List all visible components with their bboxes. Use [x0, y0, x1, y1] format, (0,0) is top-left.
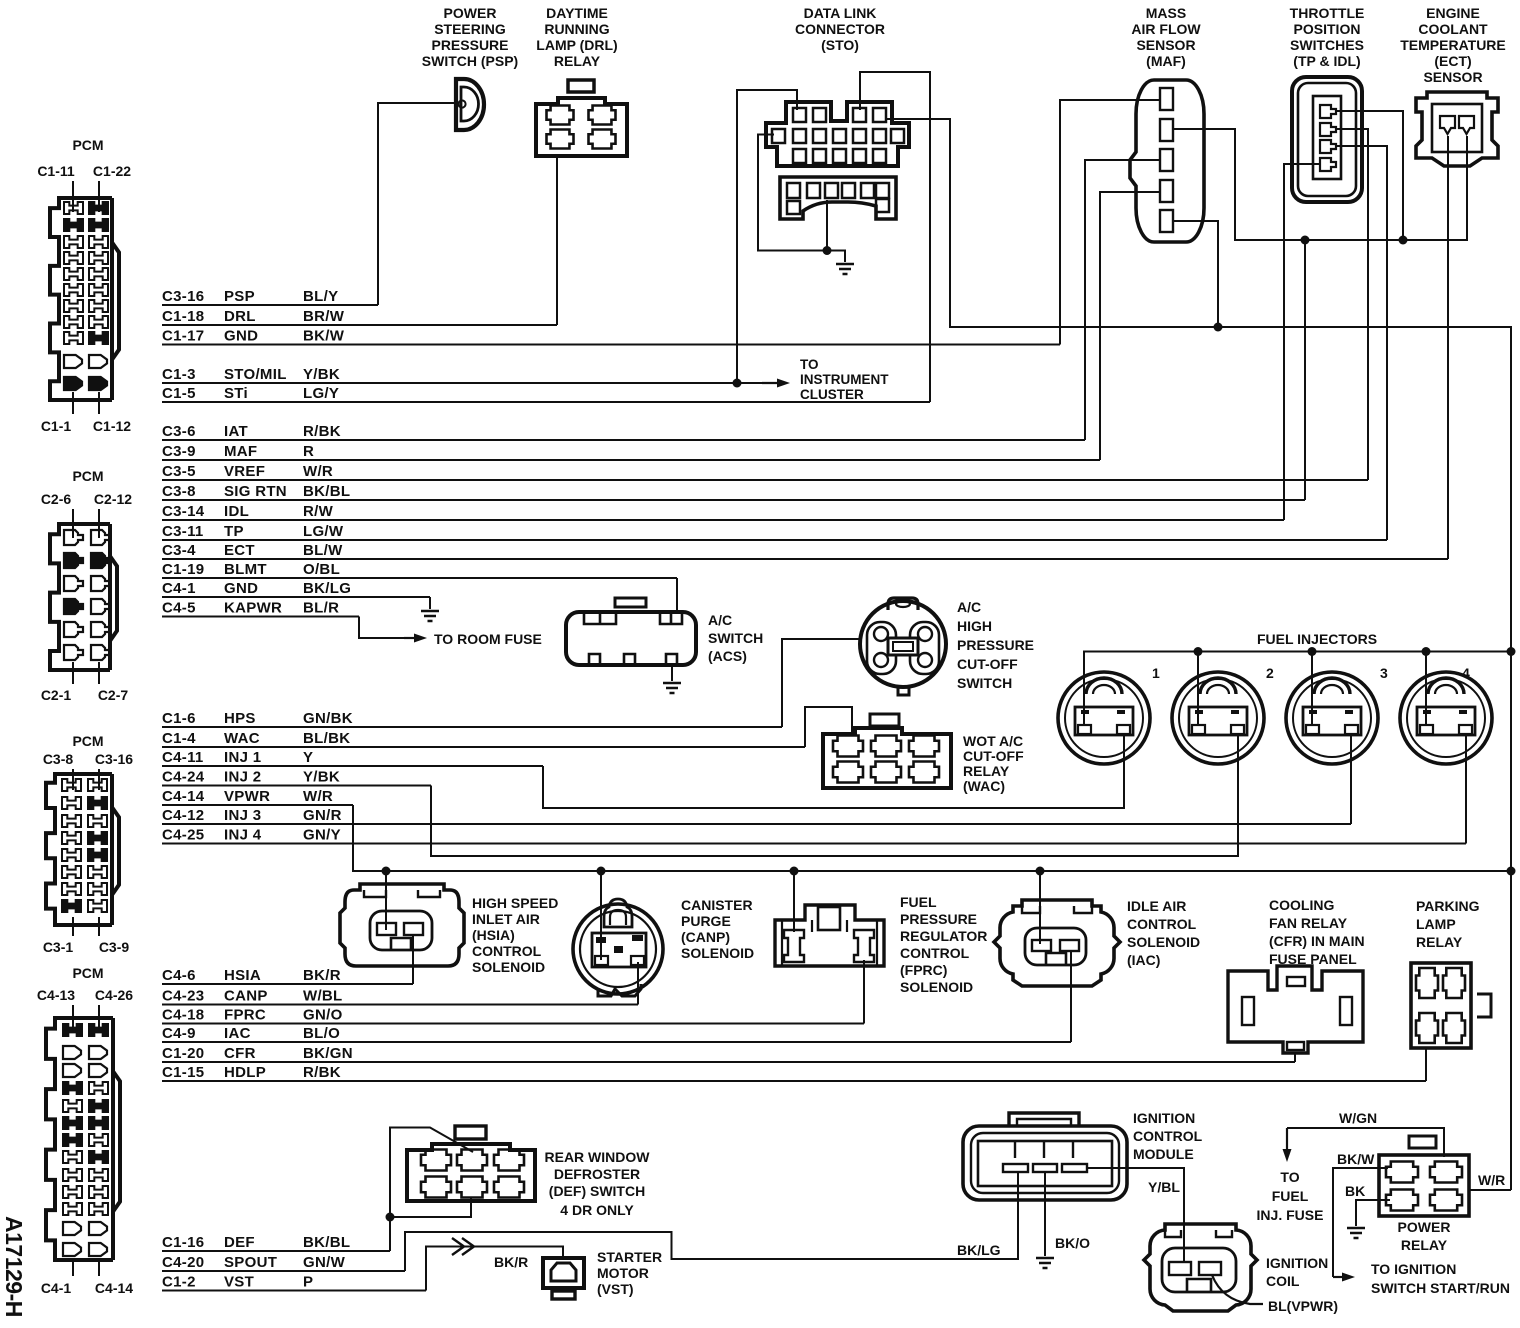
- wire INJ 4 row: [162, 843, 1466, 845]
- wire DEF riser: [390, 1128, 473, 1252]
- wire SIG RTN row: [162, 499, 1305, 501]
- svg-text:W/R: W/R: [303, 463, 333, 480]
- svg-text:FUSE PANEL: FUSE PANEL: [1269, 951, 1357, 967]
- wire GND row: [162, 344, 1060, 346]
- svg-text:STO/MIL: STO/MIL: [224, 366, 287, 383]
- svg-text:C3-8: C3-8: [43, 751, 74, 767]
- svg-text:C3-6: C3-6: [162, 423, 196, 440]
- svg-text:BK/BL: BK/BL: [303, 1234, 350, 1251]
- wire MAF pin 5 to right bus: [1173, 221, 1218, 327]
- svg-text:SWITCH: SWITCH: [708, 630, 763, 646]
- svg-text:IDLE AIR: IDLE AIR: [1127, 898, 1186, 914]
- wire ignition coil BL(VPWR) lead: [1212, 1275, 1263, 1304]
- wire VST row: [162, 1290, 426, 1292]
- svg-text:C1-16: C1-16: [162, 1234, 204, 1251]
- wire STO pin to VPWR right bus: [887, 119, 1511, 1190]
- svg-text:BL/BK: BL/BK: [303, 730, 350, 747]
- svg-text:LAMP: LAMP: [1416, 916, 1456, 932]
- wire STO/MIL arrow to instrument cluster: [762, 382, 780, 384]
- svg-text:C3-1: C3-1: [43, 939, 74, 955]
- svg-text:STEERING: STEERING: [434, 21, 506, 37]
- wire TP row to TP pin 3: [1337, 146, 1387, 540]
- svg-text:C3-11: C3-11: [162, 523, 204, 540]
- svg-text:FUEL INJECTORS: FUEL INJECTORS: [1257, 631, 1377, 647]
- svg-text:C3-8: C3-8: [162, 483, 196, 500]
- wire PSP BL/Y to PSP switch: [378, 103, 455, 305]
- svg-text:C1-4: C1-4: [162, 730, 196, 747]
- svg-text:C4-5: C4-5: [162, 600, 196, 617]
- svg-text:POWER: POWER: [1398, 1219, 1451, 1235]
- svg-text:(CANP): (CANP): [681, 929, 730, 945]
- wire FPRC feed: [793, 871, 795, 932]
- svg-text:C3-4: C3-4: [162, 542, 196, 559]
- svg-text:BK/R: BK/R: [303, 967, 341, 984]
- wire STi to data link connector: [860, 72, 930, 402]
- svg-text:BL/O: BL/O: [303, 1025, 340, 1042]
- wire VPWR row: [162, 804, 353, 806]
- svg-text:A17129-H: A17129-H: [1, 1216, 27, 1317]
- wire STO/MIL row: [162, 382, 762, 384]
- svg-text:(FPRC): (FPRC): [900, 962, 947, 978]
- wire SIG RTN bus MAF pin2 to ECT pin: [1173, 129, 1467, 240]
- wire injector 3 supply: [1311, 652, 1313, 727]
- svg-text:GND: GND: [224, 580, 258, 597]
- svg-text:C2-12: C2-12: [94, 491, 132, 507]
- wire CANP feed: [600, 871, 602, 960]
- svg-text:CUT-OFF: CUT-OFF: [963, 748, 1024, 764]
- svg-text:C1-18: C1-18: [162, 308, 204, 325]
- svg-text:GN/Y: GN/Y: [303, 827, 341, 844]
- svg-text:GN/W: GN/W: [303, 1254, 346, 1271]
- svg-text:WOT A/C: WOT A/C: [963, 733, 1023, 749]
- svg-text:PRESSURE: PRESSURE: [431, 37, 508, 53]
- svg-text:C4-20: C4-20: [162, 1254, 204, 1271]
- svg-text:PSP: PSP: [224, 288, 255, 305]
- fuel injector 1: [1058, 672, 1150, 764]
- wire IDL row: [162, 519, 1284, 521]
- connector PCM C1: [37, 137, 131, 434]
- svg-text:C4-9: C4-9: [162, 1025, 196, 1042]
- svg-text:RELAY: RELAY: [554, 53, 601, 69]
- svg-text:BL/W: BL/W: [303, 542, 343, 559]
- fuel injector 4: [1400, 672, 1492, 764]
- svg-text:(STO): (STO): [821, 37, 859, 53]
- svg-text:SIG RTN: SIG RTN: [224, 483, 287, 500]
- svg-text:C3-16: C3-16: [95, 751, 133, 767]
- solenoid FPRC (fuel pressure regulator control): [775, 905, 884, 966]
- wire HPS to A/C high pressure switch: [782, 639, 859, 727]
- svg-text:FUEL: FUEL: [1272, 1188, 1309, 1204]
- svg-text:AIR FLOW: AIR FLOW: [1131, 21, 1201, 37]
- svg-text:W/GN: W/GN: [1339, 1110, 1377, 1126]
- svg-text:BK/W: BK/W: [1337, 1151, 1375, 1167]
- svg-text:BK/R: BK/R: [494, 1254, 528, 1270]
- svg-text:TO ROOM FUSE: TO ROOM FUSE: [434, 631, 542, 647]
- svg-text:CUT-OFF: CUT-OFF: [957, 656, 1018, 672]
- switch A/C high pressure cut-off: [860, 598, 946, 695]
- coil ignition coil connector: [1144, 1224, 1257, 1311]
- svg-text:INJ. FUSE: INJ. FUSE: [1257, 1207, 1324, 1223]
- svg-text:C1-20: C1-20: [162, 1045, 204, 1062]
- svg-text:PRESSURE: PRESSURE: [957, 637, 1034, 653]
- wire CFR row to cooling fan relay: [1294, 1052, 1296, 1062]
- svg-text:STARTER: STARTER: [597, 1249, 662, 1265]
- svg-text:CONTROL: CONTROL: [900, 945, 970, 961]
- svg-text:C4-1: C4-1: [41, 1280, 72, 1296]
- svg-text:INJ 3: INJ 3: [224, 807, 261, 824]
- wire SPOUT row: [162, 1270, 405, 1272]
- svg-text:C4-1: C4-1: [162, 580, 196, 597]
- node MAF pin5 bus junction: [1214, 323, 1223, 332]
- svg-text:W/R: W/R: [303, 788, 333, 805]
- wire BLMT row: [162, 577, 677, 579]
- svg-text:SOLENOID: SOLENOID: [900, 979, 973, 995]
- svg-text:IAT: IAT: [224, 423, 248, 440]
- svg-text:BLMT: BLMT: [224, 561, 267, 578]
- svg-text:1: 1: [1152, 665, 1160, 681]
- wire CFR row: [162, 1061, 1295, 1063]
- svg-text:VPWR: VPWR: [224, 788, 270, 805]
- svg-text:C1-6: C1-6: [162, 710, 196, 727]
- svg-text:(TP & IDL): (TP & IDL): [1293, 53, 1360, 69]
- connector STO data link (lower): [780, 177, 896, 219]
- svg-text:STi: STi: [224, 385, 248, 402]
- svg-text:KAPWR: KAPWR: [224, 600, 282, 617]
- svg-text:C4-25: C4-25: [162, 827, 204, 844]
- svg-text:PCM: PCM: [72, 965, 103, 981]
- svg-text:RELAY: RELAY: [1401, 1237, 1448, 1253]
- svg-text:(ECT): (ECT): [1434, 53, 1471, 69]
- switch TP & IDL connector: [1292, 77, 1362, 202]
- svg-text:BK/LG: BK/LG: [957, 1242, 1001, 1258]
- svg-text:MOTOR: MOTOR: [597, 1265, 649, 1281]
- svg-text:VST: VST: [224, 1274, 254, 1291]
- svg-text:Y/BK: Y/BK: [303, 366, 340, 383]
- svg-text:IGNITION: IGNITION: [1133, 1110, 1195, 1126]
- svg-text:C1-1: C1-1: [41, 418, 72, 434]
- svg-text:SOLENOID: SOLENOID: [472, 959, 545, 975]
- svg-text:CLUSTER: CLUSTER: [800, 387, 864, 402]
- wire BK/W to ignition switch: [1333, 1168, 1388, 1277]
- wire IAC feed: [1039, 871, 1041, 944]
- wire IAT to MAF pin 3: [1085, 160, 1160, 440]
- svg-text:BK: BK: [1345, 1183, 1365, 1199]
- wire ICM right pin to ignition coil: [1087, 1168, 1184, 1262]
- relay DRL (daytime running lamp relay): [536, 80, 627, 156]
- svg-text:C4-11: C4-11: [162, 749, 204, 766]
- wire IAC row to solenoid: [1070, 950, 1072, 1042]
- ground below ICM: [1036, 1258, 1054, 1268]
- svg-text:PURGE: PURGE: [681, 913, 731, 929]
- svg-text:R: R: [303, 443, 314, 460]
- svg-text:CANISTER: CANISTER: [681, 897, 753, 913]
- ground below data link connector: [836, 264, 854, 274]
- wire STO/MIL to data link connector: [737, 90, 797, 383]
- svg-text:(CFR) IN MAIN: (CFR) IN MAIN: [1269, 933, 1365, 949]
- connector PCM C3: [43, 733, 133, 955]
- svg-text:COOLING: COOLING: [1269, 897, 1334, 913]
- svg-text:GN/R: GN/R: [303, 807, 342, 824]
- svg-text:PARKING: PARKING: [1416, 898, 1480, 914]
- module ICM (ignition control module): [963, 1113, 1127, 1200]
- wire BLMT to A/C switch: [676, 578, 678, 613]
- svg-text:R/W: R/W: [303, 503, 334, 520]
- svg-text:RELAY: RELAY: [963, 763, 1010, 779]
- svg-text:REAR WINDOW: REAR WINDOW: [545, 1149, 651, 1165]
- svg-text:C1-22: C1-22: [93, 163, 131, 179]
- wire ECT row to ECT sensor left pin: [1447, 136, 1449, 559]
- wire WAC to WOT relay: [805, 707, 852, 747]
- node STO/MIL junction: [733, 379, 742, 388]
- motor VST (starter motor): [543, 1258, 584, 1299]
- svg-text:PRESSURE: PRESSURE: [900, 911, 977, 927]
- sensor MAF connector: [1130, 80, 1204, 242]
- svg-text:ENGINE: ENGINE: [1426, 5, 1480, 21]
- wire IDL to TP pin 4: [1284, 164, 1319, 520]
- solenoid HSIA (high speed inlet air control): [340, 884, 464, 966]
- wire ECT row: [162, 558, 1448, 560]
- svg-text:SOLENOID: SOLENOID: [1127, 934, 1200, 950]
- svg-text:Y/BL: Y/BL: [1148, 1179, 1180, 1195]
- wire arrow to fuel injection fuse: [1286, 1128, 1288, 1152]
- ground below ACS: [663, 683, 681, 693]
- wire DRL row: [162, 324, 557, 326]
- node injector bus right junction: [1507, 647, 1516, 656]
- svg-text:C4-13: C4-13: [37, 987, 75, 1003]
- wire INJ 4: [1465, 733, 1467, 844]
- svg-text:HDLP: HDLP: [224, 1064, 266, 1081]
- svg-text:POWER: POWER: [444, 5, 497, 21]
- svg-text:O/BL: O/BL: [303, 561, 340, 578]
- svg-text:SWITCH (PSP): SWITCH (PSP): [422, 53, 518, 69]
- svg-text:2: 2: [1266, 665, 1274, 681]
- svg-text:C1-2: C1-2: [162, 1274, 196, 1291]
- wire SIG RTN riser: [1304, 240, 1306, 500]
- wire INJ 2 row: [162, 785, 431, 787]
- wire W/R from power relay to right bus: [1469, 1189, 1511, 1191]
- connector PCM C2: [41, 468, 132, 703]
- svg-text:SOLENOID: SOLENOID: [681, 945, 754, 961]
- svg-text:(VST): (VST): [597, 1281, 634, 1297]
- wire DRL BR/W to DRL relay: [556, 158, 558, 325]
- wire GND BK/W to MAF pin 1: [1060, 100, 1160, 345]
- svg-text:C2-7: C2-7: [98, 687, 129, 703]
- svg-text:BL/R: BL/R: [303, 600, 339, 617]
- wire MAF row: [162, 459, 1100, 461]
- svg-text:GND: GND: [224, 328, 258, 345]
- svg-text:LG/W: LG/W: [303, 523, 344, 540]
- wire IAC row: [162, 1041, 1071, 1043]
- svg-text:WAC: WAC: [224, 730, 260, 747]
- wire ICM middle pin to ground: [1044, 1172, 1046, 1256]
- node DEF junction: [386, 1213, 395, 1222]
- svg-text:(DEF) SWITCH: (DEF) SWITCH: [549, 1183, 645, 1199]
- wire GND row: [162, 596, 430, 598]
- wire STi row: [162, 401, 930, 403]
- svg-text:COIL: COIL: [1266, 1273, 1300, 1289]
- wire HSIA row: [162, 983, 413, 985]
- svg-text:DATA LINK: DATA LINK: [804, 5, 877, 21]
- svg-text:BK/W: BK/W: [303, 328, 345, 345]
- svg-text:DEF: DEF: [224, 1234, 255, 1251]
- wire HDLP to parking lamp relay: [1425, 1048, 1427, 1081]
- svg-text:C4-18: C4-18: [162, 1007, 204, 1024]
- svg-text:CFR: CFR: [224, 1045, 256, 1062]
- wire INJ 3 row: [162, 823, 1351, 825]
- wire IAT row: [162, 439, 1085, 441]
- svg-text:GN/BK: GN/BK: [303, 710, 353, 727]
- svg-text:R/BK: R/BK: [303, 1064, 341, 1081]
- switch ACS (A/C switch): [566, 598, 696, 665]
- svg-text:FUEL: FUEL: [900, 894, 937, 910]
- svg-text:(IAC): (IAC): [1127, 952, 1160, 968]
- svg-text:4 DR ONLY: 4 DR ONLY: [560, 1202, 634, 1218]
- svg-text:COOLANT: COOLANT: [1418, 21, 1488, 37]
- svg-text:C1-11: C1-11: [37, 163, 75, 179]
- fuel injector 2: [1172, 672, 1264, 764]
- svg-text:BL/Y: BL/Y: [303, 288, 338, 305]
- svg-text:BK/O: BK/O: [1055, 1235, 1090, 1251]
- ground power relay BK: [1347, 1228, 1365, 1238]
- node VPWR-HSIA junction: [382, 867, 391, 876]
- svg-text:FPRC: FPRC: [224, 1007, 266, 1024]
- wire DEF to switch bottom pin: [390, 1198, 471, 1217]
- svg-text:C4-12: C4-12: [162, 807, 204, 824]
- wire VPWR bus: [353, 805, 1511, 871]
- svg-text:BK/BL: BK/BL: [303, 483, 350, 500]
- svg-text:C4-6: C4-6: [162, 967, 196, 984]
- svg-text:DEFROSTER: DEFROSTER: [554, 1166, 640, 1182]
- svg-text:GN/O: GN/O: [303, 1007, 343, 1024]
- svg-text:MAF: MAF: [224, 443, 257, 460]
- svg-text:CONTROL: CONTROL: [1133, 1128, 1203, 1144]
- wire MAF signal to MAF pin 4: [1100, 192, 1160, 460]
- svg-text:C1-19: C1-19: [162, 561, 204, 578]
- node SIG RTN bus junction: [1301, 236, 1310, 245]
- svg-text:4: 4: [1462, 665, 1470, 681]
- wire INJ 3: [1350, 733, 1352, 824]
- svg-text:C4-26: C4-26: [95, 987, 133, 1003]
- wire ACS to ground: [671, 665, 673, 681]
- svg-text:LAMP (DRL): LAMP (DRL): [536, 37, 617, 53]
- svg-text:W/BL: W/BL: [303, 988, 343, 1005]
- node VPWR-FPRC junction: [790, 867, 799, 876]
- symbol: harness break chevrons on VST wire: [452, 1238, 474, 1255]
- wire KAPWR row: [162, 616, 359, 618]
- svg-text:C1-17: C1-17: [162, 328, 204, 345]
- wire injector 4 supply: [1425, 652, 1427, 727]
- wire DEF row: [162, 1250, 390, 1252]
- node VPWR right bus junction: [1507, 867, 1516, 876]
- svg-text:CONNECTOR: CONNECTOR: [795, 21, 885, 37]
- svg-text:C1-3: C1-3: [162, 366, 196, 383]
- relay WAC (WOT A/C cut-off relay): [823, 714, 951, 788]
- svg-text:CONTROL: CONTROL: [472, 943, 542, 959]
- sensor ECT connector: [1416, 92, 1498, 166]
- svg-text:MODULE: MODULE: [1133, 1146, 1194, 1162]
- node VPWR-CANP junction: [597, 867, 606, 876]
- svg-text:INJ 1: INJ 1: [224, 749, 261, 766]
- wire WAC row: [162, 746, 805, 748]
- wire KAPWR to room fuse: [359, 617, 404, 639]
- svg-text:BL(VPWR): BL(VPWR): [1268, 1298, 1338, 1314]
- svg-text:C1-12: C1-12: [93, 418, 131, 434]
- wire HDLP row: [162, 1080, 1426, 1082]
- node VPWR-IAC junction: [1036, 867, 1045, 876]
- svg-text:SWITCH: SWITCH: [957, 675, 1012, 691]
- wire VREF row: [162, 479, 1368, 481]
- wire PSP row: [162, 304, 378, 306]
- svg-text:PCM: PCM: [72, 468, 103, 484]
- node TP pin1 junction: [1399, 236, 1408, 245]
- solenoid IAC (idle air control): [994, 900, 1120, 986]
- svg-text:SWITCHES: SWITCHES: [1290, 37, 1364, 53]
- svg-text:A/C: A/C: [708, 612, 732, 628]
- relay power relay: [1379, 1136, 1469, 1216]
- wire INJ 1: [543, 733, 1124, 808]
- wire BK to ground: [1356, 1200, 1390, 1226]
- svg-text:CANP: CANP: [224, 988, 268, 1005]
- svg-text:INJ 4: INJ 4: [224, 827, 262, 844]
- wire TP row: [162, 539, 1387, 541]
- wire FPRC row: [162, 1023, 864, 1025]
- svg-text:HIGH SPEED: HIGH SPEED: [472, 895, 558, 911]
- svg-text:(HSIA): (HSIA): [472, 927, 515, 943]
- svg-text:IDL: IDL: [224, 503, 249, 520]
- svg-text:HPS: HPS: [224, 710, 256, 727]
- svg-text:A/C: A/C: [957, 599, 981, 615]
- svg-text:BR/W: BR/W: [303, 308, 345, 325]
- svg-text:C4-14: C4-14: [162, 788, 205, 805]
- svg-text:C1-15: C1-15: [162, 1064, 204, 1081]
- svg-text:BK/GN: BK/GN: [303, 1045, 353, 1062]
- svg-text:C4-14: C4-14: [95, 1280, 133, 1296]
- svg-text:C4-24: C4-24: [162, 769, 205, 786]
- wire VST to starter motor: [426, 1247, 563, 1291]
- svg-text:BK/LG: BK/LG: [303, 580, 351, 597]
- wire CANP row to solenoid: [637, 962, 639, 1005]
- svg-text:LG/Y: LG/Y: [303, 385, 339, 402]
- svg-text:RUNNING: RUNNING: [544, 21, 609, 37]
- svg-text:REGULATOR: REGULATOR: [900, 928, 987, 944]
- wire TP pin 1 to SIG RTN bus: [1337, 111, 1403, 240]
- svg-text:THROTTLE: THROTTLE: [1290, 5, 1365, 21]
- svg-text:W/R: W/R: [1478, 1172, 1505, 1188]
- svg-text:CONTROL: CONTROL: [1127, 916, 1197, 932]
- svg-text:TP: TP: [224, 523, 244, 540]
- svg-text:TO: TO: [800, 357, 819, 372]
- svg-text:ECT: ECT: [224, 542, 255, 559]
- ground GND BK/LG: [421, 611, 439, 621]
- svg-text:(ACS): (ACS): [708, 648, 747, 664]
- svg-text:C4-23: C4-23: [162, 988, 204, 1005]
- svg-text:C2-6: C2-6: [41, 491, 72, 507]
- svg-text:TEMPERATURE: TEMPERATURE: [1400, 37, 1506, 53]
- wire VREF to TP pin 2: [1337, 129, 1368, 480]
- svg-text:HIGH: HIGH: [957, 618, 992, 634]
- svg-text:FAN RELAY: FAN RELAY: [1269, 915, 1348, 931]
- switch DEF (rear window defroster): [407, 1126, 535, 1201]
- svg-text:INLET AIR: INLET AIR: [472, 911, 540, 927]
- svg-text:Y: Y: [303, 749, 313, 766]
- svg-text:(MAF): (MAF): [1146, 53, 1186, 69]
- svg-text:C3-16: C3-16: [162, 288, 204, 305]
- connector PCM C4: [37, 965, 133, 1296]
- svg-text:3: 3: [1380, 665, 1388, 681]
- wire injector 2 supply: [1197, 652, 1199, 727]
- svg-text:Y/BK: Y/BK: [303, 769, 340, 786]
- wire INJ 2: [431, 733, 1238, 856]
